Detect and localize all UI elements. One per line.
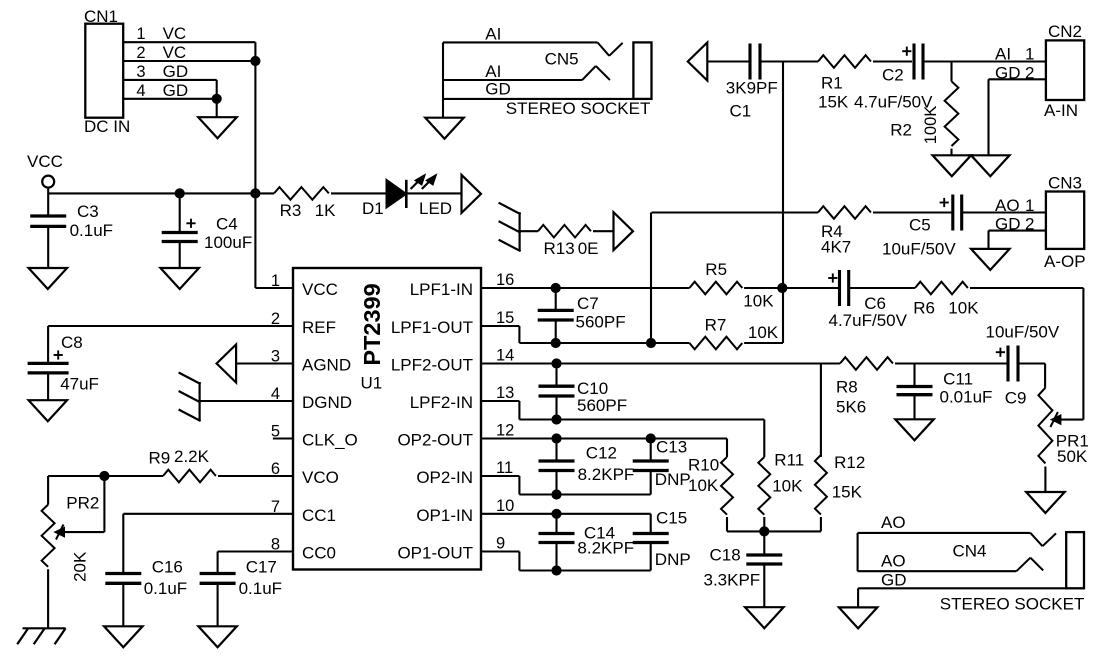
svg-text:DC IN: DC IN bbox=[84, 117, 130, 136]
svg-text:R13: R13 bbox=[544, 239, 575, 258]
svg-text:0.01uF: 0.01uF bbox=[940, 388, 993, 407]
svg-text:OP2-IN: OP2-IN bbox=[416, 468, 473, 487]
svg-text:R8: R8 bbox=[836, 378, 858, 397]
svg-text:100uF: 100uF bbox=[204, 233, 252, 252]
svg-text:15K: 15K bbox=[818, 93, 849, 112]
svg-text:CN5: CN5 bbox=[545, 50, 579, 69]
svg-text:AO: AO bbox=[995, 196, 1020, 215]
svg-text:CN2: CN2 bbox=[1048, 22, 1082, 41]
svg-text:R12: R12 bbox=[834, 453, 865, 472]
svg-text:GD: GD bbox=[485, 80, 511, 99]
svg-text:13: 13 bbox=[496, 384, 514, 402]
svg-text:4.7uF/50V: 4.7uF/50V bbox=[829, 311, 908, 330]
svg-text:D1: D1 bbox=[362, 199, 384, 218]
svg-text:VCC: VCC bbox=[302, 280, 338, 299]
svg-text:CN3: CN3 bbox=[1048, 174, 1082, 193]
svg-text:C11: C11 bbox=[943, 370, 973, 389]
svg-text:C3: C3 bbox=[77, 202, 99, 221]
svg-text:A-IN: A-IN bbox=[1044, 101, 1078, 120]
svg-text:1: 1 bbox=[271, 272, 280, 290]
svg-text:10K: 10K bbox=[688, 476, 719, 495]
svg-text:A-OP: A-OP bbox=[1044, 252, 1086, 271]
svg-text:560PF: 560PF bbox=[576, 313, 626, 332]
svg-text:20K: 20K bbox=[71, 551, 90, 582]
svg-text:C2: C2 bbox=[882, 66, 904, 85]
svg-text:50K: 50K bbox=[1057, 447, 1088, 466]
svg-text:14: 14 bbox=[496, 347, 514, 365]
svg-text:0.1uF: 0.1uF bbox=[239, 579, 282, 598]
svg-text:C17: C17 bbox=[246, 558, 277, 577]
svg-text:LED: LED bbox=[419, 199, 452, 218]
svg-text:0.1uF: 0.1uF bbox=[144, 579, 187, 598]
svg-text:R1: R1 bbox=[821, 74, 843, 93]
svg-text:C18: C18 bbox=[710, 546, 741, 565]
svg-text:R10: R10 bbox=[688, 456, 719, 475]
svg-text:R6: R6 bbox=[913, 299, 935, 318]
svg-text:DGND: DGND bbox=[302, 393, 352, 412]
svg-text:2.2K: 2.2K bbox=[174, 447, 210, 466]
svg-text:10uF/50V: 10uF/50V bbox=[986, 323, 1060, 342]
svg-text:2: 2 bbox=[136, 44, 145, 62]
svg-text:5K6: 5K6 bbox=[836, 398, 866, 417]
svg-text:REF: REF bbox=[302, 318, 336, 337]
svg-text:STEREO SOCKET: STEREO SOCKET bbox=[506, 99, 651, 118]
svg-text:VCO: VCO bbox=[302, 468, 339, 487]
svg-text:GD: GD bbox=[163, 62, 189, 81]
svg-text:1: 1 bbox=[1025, 196, 1034, 215]
svg-text:VC: VC bbox=[163, 43, 187, 62]
svg-text:LPF1-IN: LPF1-IN bbox=[410, 280, 473, 299]
svg-text:4K7: 4K7 bbox=[821, 238, 851, 257]
svg-text:OP1-OUT: OP1-OUT bbox=[397, 544, 473, 563]
svg-text:10: 10 bbox=[496, 497, 514, 515]
svg-text:GD: GD bbox=[163, 81, 189, 100]
svg-text:16: 16 bbox=[496, 271, 514, 289]
svg-text:AO: AO bbox=[881, 513, 906, 532]
svg-text:LPF1-OUT: LPF1-OUT bbox=[391, 318, 473, 337]
svg-text:R11: R11 bbox=[774, 451, 804, 470]
svg-text:15K: 15K bbox=[832, 483, 863, 502]
svg-text:R7: R7 bbox=[705, 316, 727, 335]
svg-text:1: 1 bbox=[136, 25, 145, 43]
svg-text:C15: C15 bbox=[656, 509, 687, 528]
svg-text:4: 4 bbox=[136, 82, 145, 100]
svg-text:LPF2-OUT: LPF2-OUT bbox=[391, 356, 473, 375]
svg-text:C9: C9 bbox=[1005, 389, 1027, 408]
svg-text:10K: 10K bbox=[772, 477, 803, 496]
svg-text:CN1: CN1 bbox=[84, 7, 118, 26]
svg-text:R5: R5 bbox=[705, 260, 727, 279]
svg-text:15: 15 bbox=[496, 309, 514, 327]
svg-text:CC1: CC1 bbox=[302, 506, 336, 525]
svg-text:VC: VC bbox=[163, 24, 187, 43]
svg-text:0.1uF: 0.1uF bbox=[70, 221, 113, 240]
svg-text:2: 2 bbox=[1025, 64, 1034, 83]
svg-text:PT2399: PT2399 bbox=[359, 283, 385, 365]
svg-text:AI: AI bbox=[995, 45, 1011, 64]
svg-text:8.2KPF: 8.2KPF bbox=[577, 539, 634, 558]
svg-text:10uF/50V: 10uF/50V bbox=[882, 240, 956, 259]
svg-text:AI: AI bbox=[485, 25, 501, 44]
svg-text:DNP: DNP bbox=[655, 470, 691, 489]
svg-text:9: 9 bbox=[496, 535, 505, 553]
svg-text:OP1-IN: OP1-IN bbox=[416, 506, 473, 525]
svg-text:STEREO SOCKET: STEREO SOCKET bbox=[940, 595, 1085, 614]
svg-text:VCC: VCC bbox=[27, 152, 63, 171]
svg-text:560PF: 560PF bbox=[577, 396, 627, 415]
svg-text:CLK_O: CLK_O bbox=[302, 431, 358, 450]
svg-text:R3: R3 bbox=[280, 201, 302, 220]
svg-text:8.2KPF: 8.2KPF bbox=[578, 465, 635, 484]
svg-text:C8: C8 bbox=[61, 333, 83, 352]
svg-text:GD: GD bbox=[881, 571, 907, 590]
svg-text:1K: 1K bbox=[315, 201, 336, 220]
svg-text:AO: AO bbox=[881, 552, 906, 571]
svg-text:10K: 10K bbox=[948, 299, 979, 318]
svg-text:C7: C7 bbox=[577, 294, 599, 313]
svg-text:47uF: 47uF bbox=[60, 375, 99, 394]
svg-text:C12: C12 bbox=[586, 444, 617, 463]
svg-text:1: 1 bbox=[1025, 45, 1034, 64]
svg-text:AI: AI bbox=[485, 62, 501, 81]
svg-text:AGND: AGND bbox=[302, 356, 351, 375]
svg-text:C5: C5 bbox=[909, 216, 931, 235]
svg-text:CC0: CC0 bbox=[302, 544, 336, 563]
svg-text:C1: C1 bbox=[730, 102, 752, 121]
svg-text:LPF2-IN: LPF2-IN bbox=[410, 393, 473, 412]
svg-text:DNP: DNP bbox=[655, 550, 691, 569]
svg-text:U1: U1 bbox=[361, 374, 383, 393]
svg-text:R9: R9 bbox=[149, 449, 171, 468]
svg-text:R2: R2 bbox=[890, 121, 912, 140]
svg-text:0E: 0E bbox=[578, 239, 599, 258]
svg-text:3K9PF: 3K9PF bbox=[726, 79, 778, 98]
svg-text:OP2-OUT: OP2-OUT bbox=[397, 431, 473, 450]
svg-text:3: 3 bbox=[136, 63, 145, 81]
svg-text:11: 11 bbox=[496, 459, 513, 477]
svg-text:10K: 10K bbox=[748, 323, 779, 342]
svg-text:GD: GD bbox=[995, 64, 1021, 83]
svg-text:100K: 100K bbox=[922, 106, 940, 145]
svg-text:C13: C13 bbox=[656, 438, 687, 457]
svg-text:C4: C4 bbox=[216, 215, 238, 234]
svg-text:C16: C16 bbox=[152, 558, 183, 577]
svg-text:CN4: CN4 bbox=[953, 542, 987, 561]
svg-text:12: 12 bbox=[496, 422, 514, 440]
svg-text:PR2: PR2 bbox=[66, 494, 99, 513]
svg-text:3.3KPF: 3.3KPF bbox=[704, 571, 761, 590]
svg-text:10K: 10K bbox=[743, 292, 774, 311]
